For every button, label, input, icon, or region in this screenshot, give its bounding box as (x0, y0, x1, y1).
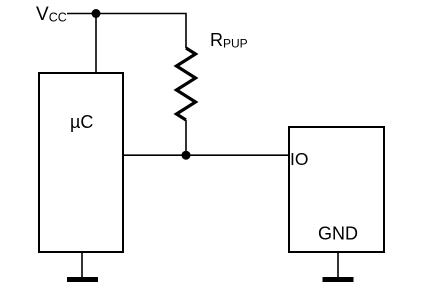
svg-text:GND: GND (318, 224, 358, 244)
wire junction to resistor top corner (96, 14, 186, 49)
ground (below µC) (67, 253, 98, 282)
wire µC to IO pin (124, 154, 289, 156)
wire Vcc label to junction (67, 13, 96, 15)
node Vcc junction (92, 9, 101, 18)
µC box (39, 73, 123, 252)
svg-text:µC: µC (70, 112, 93, 132)
wire junction down to µC top (95, 14, 97, 73)
node IO net junction (182, 151, 191, 160)
resistor RPUP (177, 48, 196, 120)
ground (below IO device) (323, 253, 354, 282)
IO device box (289, 127, 384, 252)
svg-text:IO: IO (290, 149, 308, 169)
wire resistor bottom to IO net junction (185, 120, 187, 155)
